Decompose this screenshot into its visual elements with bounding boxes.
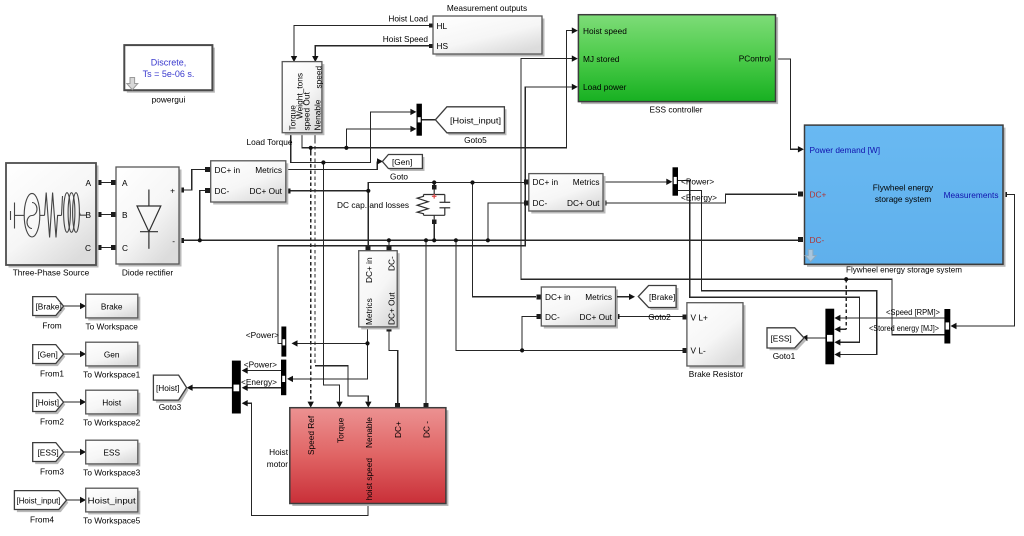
svg-text:To Workspace2: To Workspace2	[83, 417, 140, 427]
ESS controller block	[578, 15, 778, 115]
to workspace Hoist	[83, 390, 140, 427]
to workspace ESS	[83, 440, 140, 477]
svg-text:PControl: PControl	[739, 54, 771, 64]
svg-text:Goto2: Goto2	[648, 312, 671, 322]
wire vert metrics DC+ out to motor DC+	[389, 329, 398, 405]
svg-text:motor: motor	[267, 459, 288, 469]
svg-text:ESS controller: ESS controller	[649, 105, 702, 115]
wire speed out from load torque block	[302, 27, 578, 407]
wire metrics1 to Gen goto	[286, 158, 383, 169]
svg-text:Flywheel energy: Flywheel energy	[873, 183, 934, 193]
goto tag ESS	[767, 328, 807, 361]
svg-text:Nenable: Nenable	[364, 417, 374, 448]
svg-text:To Workspace5: To Workspace5	[83, 515, 140, 525]
svg-text:DC -: DC -	[422, 421, 432, 438]
svg-text:Load Torque: Load Torque	[247, 137, 293, 147]
svg-text:To Workspace1: To Workspace1	[83, 369, 140, 379]
port squares	[97, 24, 1007, 409]
from tag ESS	[33, 443, 66, 477]
svg-text:Discrete,: Discrete,	[151, 58, 187, 68]
wire goto5 mux output	[422, 117, 447, 123]
svg-text:To Workspace: To Workspace	[85, 321, 138, 331]
svg-text:Goto3: Goto3	[159, 402, 182, 412]
from tag Brake	[33, 297, 66, 331]
svg-text:DC+ in: DC+ in	[215, 165, 241, 175]
svg-text:[Hoist]: [Hoist]	[156, 383, 180, 393]
svg-text:DC-: DC-	[533, 198, 548, 208]
svg-text:Hoist Speed: Hoist Speed	[383, 34, 429, 44]
junction dots	[198, 146, 849, 353]
svg-text:speed: speed	[314, 66, 324, 89]
wire from Gen	[64, 351, 87, 357]
svg-text:<Stored energy [MJ]>: <Stored energy [MJ]>	[869, 323, 939, 333]
svg-text:From4: From4	[30, 514, 54, 524]
svg-text:Hoist_input: Hoist_input	[88, 495, 137, 505]
wire PControl to flywheel	[776, 59, 804, 153]
DC measure block 3 (brake branch)	[541, 287, 618, 329]
wire selector Power to ESS mux	[678, 181, 860, 346]
wire from Hoist_input	[67, 497, 87, 503]
bus selector hoist power energy	[241, 359, 286, 395]
svg-text:From2: From2	[40, 416, 64, 426]
measurement outputs block	[433, 3, 545, 57]
wire motor DC- up to rail	[425, 240, 427, 404]
wire selector2 energy out	[242, 385, 281, 391]
bus selector flywheel measurements	[944, 309, 950, 344]
svg-text:DC-: DC-	[387, 256, 397, 271]
svg-text:DC-: DC-	[810, 235, 825, 245]
svg-text:HL: HL	[437, 21, 448, 31]
wire big mux to Hoist goto	[187, 385, 232, 391]
svg-text:Nenable: Nenable	[313, 99, 323, 130]
svg-text:[ESS]: [ESS]	[771, 333, 792, 343]
svg-text:Torque: Torque	[335, 417, 345, 443]
svg-text:From3: From3	[40, 466, 64, 476]
from tag Hoist_input	[14, 491, 68, 525]
svg-text:Load power: Load power	[583, 82, 627, 92]
wire brake metrics to VL+	[617, 316, 683, 318]
svg-text:[Gen]: [Gen]	[392, 157, 412, 167]
wire brake metrics to goto2	[617, 294, 635, 300]
svg-text:<Power>: <Power>	[244, 359, 277, 369]
wire selector Energy to ESS mux	[678, 191, 877, 358]
goto tag Hoist_input	[435, 107, 506, 145]
svg-text:A: A	[122, 178, 128, 188]
svg-text:C: C	[122, 243, 128, 253]
svg-text:speed Out: speed Out	[302, 92, 312, 131]
wire motor metrics load power	[287, 329, 368, 383]
svg-text:B: B	[85, 210, 91, 220]
goto tag Brake	[638, 286, 678, 322]
wire DC+ rail	[288, 183, 536, 297]
svg-text:Brake: Brake	[101, 301, 123, 311]
svg-text:Hoist: Hoist	[102, 397, 122, 407]
wire from Hoist	[64, 399, 87, 405]
hoist motor block	[267, 408, 449, 506]
svg-text:DC+ Out: DC+ Out	[387, 292, 397, 325]
svg-text:DC+ in: DC+ in	[533, 177, 559, 187]
svg-text:Metrics: Metrics	[573, 177, 600, 187]
svg-text:Three-Phase Source: Three-Phase Source	[13, 268, 90, 278]
wire flywheel measurements to right selector	[951, 195, 1015, 330]
load torque subsystem block	[247, 62, 325, 147]
svg-text:ESS: ESS	[103, 447, 120, 457]
svg-text:DC+ Out: DC+ Out	[579, 312, 612, 322]
svg-text:DC+: DC+	[810, 190, 827, 200]
svg-text:Hoist: Hoist	[269, 447, 289, 457]
brake resistor block	[687, 303, 746, 379]
wire from Brake	[64, 303, 87, 309]
svg-text:From1: From1	[40, 368, 64, 378]
svg-text:V L-: V L-	[691, 346, 706, 356]
svg-text:Diode rectifier: Diode rectifier	[122, 268, 173, 278]
svg-text:DC+: DC+	[393, 421, 403, 438]
svg-text:Metrics: Metrics	[255, 165, 282, 175]
svg-text:+: +	[170, 186, 175, 196]
wire DC- rail	[182, 191, 798, 405]
DC measure block 2 (ESS branch)	[529, 174, 606, 214]
mux goto3	[232, 361, 241, 414]
svg-text:<Energy>: <Energy>	[241, 377, 277, 387]
svg-text:[ESS]: [ESS]	[38, 447, 59, 457]
wire from ESS	[64, 449, 87, 455]
svg-text:B: B	[122, 210, 128, 220]
three-phase source block	[6, 163, 99, 278]
svg-text:Ts = 5e-06 s.: Ts = 5e-06 s.	[143, 69, 195, 79]
flywheel energy storage system block	[805, 125, 1006, 274]
wire selector2 power out	[242, 367, 281, 373]
to workspace Hoist_input	[83, 488, 140, 525]
wire hoist speed feedback	[242, 400, 368, 516]
to workspace Gen	[83, 342, 140, 379]
svg-text:DC+ in: DC+ in	[364, 257, 374, 283]
goto tag Hoist	[153, 375, 188, 412]
svg-text:<Speed [RPM]>: <Speed [RPM]>	[886, 307, 940, 317]
from tag Gen	[33, 345, 66, 379]
svg-text:DC-: DC-	[215, 186, 230, 196]
wire hoist load label line	[291, 14, 433, 63]
svg-text:[Hoist_input]: [Hoist_input]	[17, 495, 61, 505]
from tag Hoist	[33, 393, 66, 427]
wire ESS mux to ESS goto	[801, 335, 825, 341]
svg-text:[Gen]: [Gen]	[38, 349, 58, 359]
svg-text:DC+ Out: DC+ Out	[249, 186, 282, 196]
powergui block	[124, 45, 215, 104]
wire torque from load torque block	[291, 109, 417, 408]
svg-text:Measurements: Measurements	[944, 190, 999, 200]
svg-text:Goto1: Goto1	[773, 351, 796, 361]
DC cap and losses RC network	[337, 189, 450, 219]
wire nenable from load torque block	[315, 133, 371, 408]
svg-text:Speed Ref: Speed Ref	[306, 415, 316, 455]
svg-text:[Brake]: [Brake]	[649, 292, 675, 302]
svg-text:A: A	[85, 178, 91, 188]
wire mid metrics to bus selector	[604, 179, 672, 185]
wire power return loop	[278, 84, 846, 344]
wire rectifier plus to DC measure 1	[182, 170, 206, 191]
svg-text:hoist speed: hoist speed	[364, 458, 374, 501]
svg-text:Power demand [W]: Power demand [W]	[810, 145, 881, 155]
goto tag Gen	[382, 155, 424, 182]
svg-text:DC+ in: DC+ in	[545, 292, 571, 302]
svg-text:C: C	[85, 243, 91, 253]
wire hoist speed label line	[312, 34, 433, 62]
DC measure block 1	[211, 161, 289, 205]
wire stored energy MJ	[521, 55, 944, 334]
svg-text:Goto: Goto	[390, 172, 408, 182]
wire source A to rectifier A	[96, 182, 116, 184]
wire DC+ out to flywheel DC+	[604, 194, 797, 203]
svg-text:<Power>: <Power>	[246, 330, 279, 340]
svg-text:Metrics: Metrics	[364, 298, 374, 325]
diode rectifier block	[116, 167, 182, 278]
svg-text:Hoist speed: Hoist speed	[583, 26, 627, 36]
mux ESS signals	[825, 309, 834, 365]
svg-text:V L+: V L+	[691, 312, 708, 322]
svg-text:<Power>: <Power>	[681, 176, 714, 186]
svg-text:Goto5: Goto5	[464, 135, 487, 145]
svg-text:DC cap. and losses: DC cap. and losses	[337, 200, 409, 210]
svg-text:Brake Resistor: Brake Resistor	[689, 369, 744, 379]
svg-text:[Brake]: [Brake]	[36, 301, 62, 311]
svg-text:[Hoist_input]: [Hoist_input]	[450, 115, 501, 125]
svg-text:powergui: powergui	[152, 95, 186, 105]
svg-text:-: -	[172, 236, 175, 246]
svg-text:MJ stored: MJ stored	[583, 54, 620, 64]
wire source B to rectifier B	[96, 214, 116, 216]
svg-text:DC-: DC-	[545, 312, 560, 322]
svg-text:To Workspace3: To Workspace3	[83, 467, 140, 477]
vertical DC measure block (motor branch)	[359, 251, 400, 330]
svg-text:[Hoist]: [Hoist]	[36, 397, 60, 407]
svg-text:DC+ Out: DC+ Out	[567, 198, 600, 208]
svg-text:<Energy>: <Energy>	[681, 192, 717, 202]
svg-text:Measurement outputs: Measurement outputs	[447, 3, 527, 13]
to workspace Brake	[85, 294, 140, 331]
svg-text:Metrics: Metrics	[585, 292, 612, 302]
mux goto5	[417, 104, 422, 136]
bus selector ESS metrics	[673, 167, 718, 202]
wire source C to rectifier C	[96, 247, 116, 249]
svg-text:Gen: Gen	[104, 349, 120, 359]
svg-text:storage system: storage system	[875, 194, 931, 204]
svg-text:From: From	[42, 320, 61, 330]
svg-text:Flywheel energy storage system: Flywheel energy storage system	[846, 265, 962, 275]
svg-text:HS: HS	[437, 41, 449, 51]
wire speed RPM	[834, 307, 944, 321]
bus selector hoist power	[246, 327, 287, 357]
svg-text:Hoist Load: Hoist Load	[388, 14, 428, 24]
